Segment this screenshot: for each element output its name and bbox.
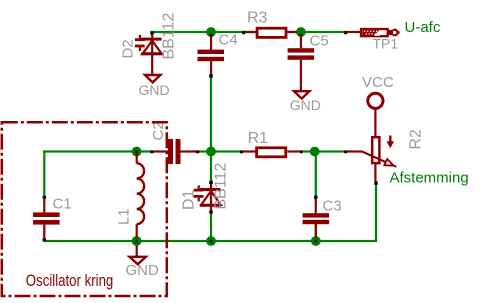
inductor L1 [136,153,145,239]
svg-text:VCC: VCC [362,74,394,91]
capacitor C3 [303,199,330,238]
ground symbol at bottom net [130,246,146,265]
pin tip: C2 left [150,150,153,153]
pin tip: C3 top [314,196,318,199]
pin tip: R3 left [242,31,245,34]
svg-text:U-afc: U-afc [405,19,441,36]
wire: top net from D2 to TP1 [151,31,345,33]
testpoint TP1 [347,29,400,36]
capacitor C4 [198,36,225,75]
svg-text:R2: R2 [408,129,425,150]
junction dot G (bottom net / D1 bottom) [206,236,216,246]
wire: bottom net horizontal [43,240,377,242]
svg-text:C4: C4 [219,32,238,49]
svg-text:D2: D2 [119,39,136,58]
svg-text:D1: D1 [180,189,197,210]
supply symbol VCC [368,93,383,136]
label BB112 (D2) [160,13,177,60]
label BB112 (D1) [212,163,229,210]
pin tip: top net right / TP1 [344,31,347,34]
svg-text:R3: R3 [247,10,268,27]
svg-text:GND: GND [290,97,321,113]
svg-text:Afstemming: Afstemming [390,170,469,187]
label GND (D2) [139,82,170,98]
label R1 [248,130,269,147]
wire: middle net horizontal [43,150,344,152]
label D1 [180,189,197,210]
svg-text:BB112: BB112 [160,13,177,60]
pin tip: R2 bottom [374,181,377,185]
label C4 [219,32,238,49]
junction dot A (top net / C4) [206,27,216,37]
label C3 [323,198,342,215]
svg-text:GND: GND [126,262,160,279]
label GND (bottom) [126,262,160,279]
pin tip: C4 bottom [209,74,213,77]
label VCC [362,74,394,91]
pin tip: R1 left [240,150,243,153]
resistor R3 [245,28,297,37]
capacitor C5 [288,35,315,90]
wire: right vertical to R2 bottom [375,184,377,241]
svg-text:C2: C2 [150,121,167,140]
svg-text:C1: C1 [53,196,72,213]
pin tip: R1 right [300,150,303,153]
svg-text:Oscillator kring: Oscillator kring [26,271,114,290]
diode D2 varicap [135,34,162,74]
label C1 [53,196,72,213]
wire: C4 vertical to middle net [210,77,212,152]
label C2 [150,121,167,140]
wire: left vertical (C1 branch) [43,150,45,241]
label Oscillator kring [26,271,114,290]
junction dot E (middle net / C3 column) [310,147,320,157]
svg-text:L1: L1 [116,208,133,225]
label L1 [116,208,133,225]
junction dot C (middle net / L1 top) [132,147,142,157]
pin tip: D1 bottom [209,210,213,213]
diode D1 varicap [194,184,221,211]
label R2 [408,129,425,150]
pin tip: C2 right [196,150,199,153]
label TP1 [373,35,399,51]
svg-text:C3: C3 [323,198,342,215]
pin tip: D2 top [150,31,153,35]
junction dot B (top net / C5) [296,27,306,37]
capacitor C1 [33,199,60,239]
svg-text:TP1: TP1 [373,35,399,51]
ground symbol at D2 [145,75,160,82]
junction dot H (bottom net / C3 bottom) [311,236,321,246]
wire: C3 vertical segments [315,152,317,241]
pin tip: R2 wiper [344,150,347,153]
junction dot D (middle net / C4-D1 column) [206,147,216,157]
svg-text:GND: GND [139,82,170,98]
pin tip: C1 bottom [43,238,47,241]
svg-text:BB112: BB112 [212,163,229,210]
frame: oscillator dashed box [2,122,167,296]
svg-text:R1: R1 [248,130,269,147]
svg-text:C5: C5 [310,33,329,50]
net label Afstemming [390,170,469,187]
resistor R1 [243,148,301,157]
label R3 [247,10,268,27]
label C5 [310,33,329,50]
net label U-afc [405,19,441,36]
wire: D1 vertical segments [210,152,212,241]
label D2 [119,39,136,58]
junction dot F (bottom net / L1 bottom, GND) [132,236,142,246]
pin tip: C1 top [43,196,47,199]
label GND (C5) [290,97,321,113]
capacitor C2 [153,139,196,164]
pin tip: D1 top [209,181,213,184]
potentiometer R2 [347,136,396,182]
ground symbol at C5 [294,91,309,98]
